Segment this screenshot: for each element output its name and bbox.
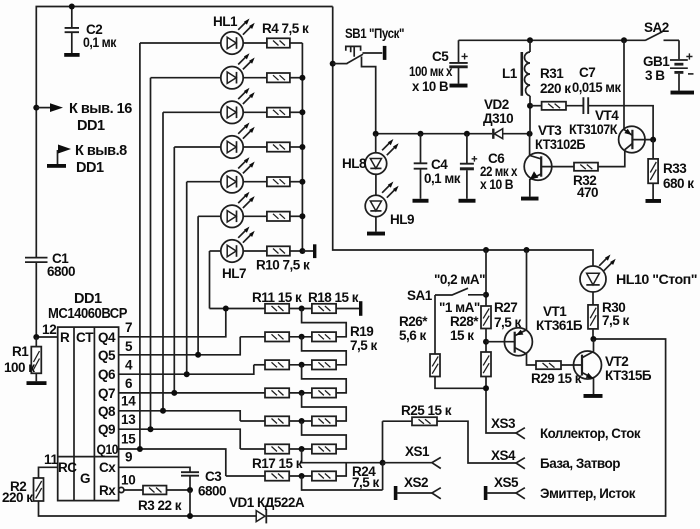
wire R5 to anode bus	[290, 77, 303, 79]
transistor VT2	[574, 339, 652, 394]
pin 9 wire Cx	[119, 467, 190, 471]
ground C5	[450, 84, 468, 88]
node Q6-HL5	[184, 371, 190, 377]
svg-text:CT: CT	[76, 330, 94, 345]
wire R25 left riser to XS1 node	[382, 421, 384, 463]
resistor R27	[481, 300, 522, 330]
wire HL2 riser to Q9	[150, 78, 152, 430]
capacitor C4	[414, 134, 461, 199]
svg-text:10: 10	[121, 473, 135, 488]
node bus-row4	[299, 144, 305, 150]
pin 7 wire Q4	[119, 309, 226, 337]
transistor VT3	[524, 123, 586, 197]
resistor R5	[243, 73, 290, 82]
resistor R14	[265, 388, 289, 397]
wire R28 bottom to XS3	[486, 377, 516, 434]
svg-text:Q6: Q6	[98, 367, 116, 382]
wire grid row3 left	[254, 364, 265, 366]
ground R1	[27, 381, 47, 385]
svg-text:R18 15 к: R18 15 к	[308, 290, 359, 305]
wire VT1 base	[486, 341, 515, 343]
svg-text:R17 15 к: R17 15 к	[252, 456, 303, 471]
resistor R25	[383, 403, 452, 425]
wire R7 to anode bus	[290, 146, 303, 148]
svg-text:VT2: VT2	[605, 354, 628, 369]
svg-text:Q4: Q4	[98, 330, 116, 345]
pin 12 wire	[36, 336, 57, 338]
wire R9 to anode bus	[290, 215, 303, 217]
svg-text:220 к: 220 к	[2, 490, 33, 505]
svg-text:XS5: XS5	[494, 475, 519, 490]
LED HL9	[365, 182, 414, 228]
capacitor C3	[181, 469, 226, 499]
svg-text:Коллектор, Сток: Коллектор, Сток	[540, 426, 641, 441]
socket XS2	[394, 475, 441, 500]
svg-text:R: R	[60, 330, 70, 345]
wire row4 mid	[289, 392, 312, 394]
node row6 center	[299, 446, 305, 452]
node R28-R26-XS3	[483, 385, 489, 391]
wire HL4 riser to Q7	[173, 147, 175, 393]
wire C3 node down to bottom bus	[189, 490, 191, 516]
svg-text:HL8: HL8	[342, 156, 367, 171]
ground VT2	[584, 394, 603, 398]
wire R29 to VT2 base	[561, 364, 582, 366]
resistor R30	[588, 300, 630, 329]
svg-text:5,6 к: 5,6 к	[399, 328, 427, 343]
wire HL8 to HL9	[375, 174, 377, 195]
node VD2-L1 junction	[527, 131, 533, 137]
transistor VT1	[504, 250, 582, 365]
resistor R21	[312, 388, 336, 397]
wire oscillator bus	[376, 133, 492, 135]
node K vyv.8 DD1 tap with ground	[47, 143, 127, 176]
svg-text:13: 13	[121, 412, 136, 427]
node L1 top	[527, 37, 533, 43]
op IC DD1 MC14060BCP body	[48, 291, 128, 501]
svg-text:470: 470	[577, 185, 598, 200]
svg-text:220 к: 220 к	[540, 81, 571, 96]
node bus-VT1 emitter	[524, 247, 530, 253]
LED HL1	[213, 14, 255, 54]
svg-text:DD1: DD1	[76, 160, 104, 176]
capacitor C1	[25, 251, 75, 279]
svg-text:SB1 "Пуск": SB1 "Пуск"	[345, 26, 404, 41]
svg-text:4: 4	[125, 358, 133, 373]
svg-text:R11 15 к: R11 15 к	[252, 290, 302, 305]
svg-text:15 к: 15 к	[450, 328, 474, 343]
wire HL9 to ground	[375, 217, 377, 232]
node Q7-HL4	[171, 390, 177, 396]
svg-text:XS3: XS3	[491, 416, 516, 431]
wire staircase row5-row6	[302, 421, 347, 449]
common-rail terminal bar at R10	[313, 244, 316, 258]
svg-text:R10 7,5 к: R10 7,5 к	[256, 258, 310, 273]
ground R33	[646, 199, 662, 203]
diode VD2	[483, 97, 513, 139]
ground C6	[459, 199, 476, 203]
LED HL2	[221, 53, 255, 89]
wire HL1 riser to Q10	[139, 43, 141, 449]
pin 14 wire Q8	[119, 411, 241, 421]
resistor R8	[243, 177, 290, 186]
wire grid row6 left	[240, 448, 265, 450]
node Q5-HL6	[195, 352, 201, 358]
wire row7 center down to XS1 link	[302, 476, 383, 490]
wire XS1 node down to Rx line	[382, 463, 384, 490]
node bottom bus junction	[187, 513, 193, 519]
svg-text:0,1 мк: 0,1 мк	[424, 171, 461, 186]
wire row6 mid	[289, 448, 312, 450]
wire R4 to anode bus	[290, 42, 303, 44]
wire bottom common bus	[39, 501, 257, 516]
wire HL5 anode row	[187, 181, 221, 183]
node bus-SA1	[483, 247, 489, 253]
wire HL6 riser to Q5	[197, 216, 199, 354]
svg-text:7,5 к: 7,5 к	[602, 313, 630, 328]
svg-text:C3: C3	[205, 469, 222, 484]
wire HL1 anode row	[140, 42, 221, 44]
node C3-R3 junction	[187, 487, 193, 493]
node HL8 tap	[373, 131, 379, 137]
switch SA1	[407, 250, 489, 354]
pin 4 wire Q6	[119, 365, 254, 374]
svg-text:100 мк х: 100 мк х	[409, 64, 453, 79]
node row1 center	[299, 306, 305, 312]
svg-text:9: 9	[125, 450, 132, 465]
svg-text:МС14060ВСР: МС14060ВСР	[48, 306, 128, 322]
wire row7 mid	[289, 475, 312, 477]
wire supply drop right of HL block and measuring bus	[333, 7, 593, 266]
svg-text:Q9: Q9	[98, 422, 115, 437]
node row2 center	[299, 334, 305, 340]
svg-text:11: 11	[44, 452, 58, 467]
svg-text:КТ361Б: КТ361Б	[536, 318, 583, 333]
LED HL4	[221, 123, 255, 159]
svg-text:0,015 мк: 0,015 мк	[572, 80, 621, 95]
wire HL5 riser to Q6	[186, 182, 188, 375]
svg-text:XS4: XS4	[491, 448, 516, 463]
svg-text:База, Затвор: База, Затвор	[540, 456, 620, 471]
wire VT4 emitter column	[623, 40, 625, 129]
svg-text:К выв.8: К выв.8	[75, 143, 127, 159]
resistor R11	[252, 290, 302, 313]
ground VT3	[521, 197, 539, 201]
svg-text:R28*: R28*	[450, 314, 479, 329]
svg-text:VT1: VT1	[543, 304, 567, 319]
wire grid row2 left	[240, 336, 265, 338]
resistor R12	[265, 332, 289, 341]
capacitor C5 electrolytic	[409, 40, 468, 94]
wire staircase row1-row2	[302, 309, 347, 337]
node Q4 riser joins row1	[223, 306, 229, 312]
svg-text:R26*: R26*	[399, 314, 428, 329]
node VT1 base tap	[483, 339, 489, 345]
svg-text:Эмиттер, Исток: Эмиттер, Исток	[540, 486, 636, 501]
wire row3 mid	[289, 364, 312, 366]
svg-text:100 к: 100 к	[4, 360, 35, 375]
svg-text:6: 6	[125, 376, 133, 391]
svg-text:7,5 к: 7,5 к	[350, 338, 378, 353]
common-rail terminal bar at R18	[359, 301, 362, 316]
wire R3 to Rx node and on to grid	[167, 489, 191, 491]
resistor R31	[530, 66, 571, 110]
svg-text:R33: R33	[663, 161, 687, 176]
wire HL3 riser to Q8	[162, 112, 164, 411]
node Q10-HL1	[137, 446, 143, 452]
LED HL8	[342, 134, 399, 175]
resistor R24	[312, 464, 380, 490]
wire left rail lower segment to pin 12	[35, 263, 37, 338]
svg-text:Q5: Q5	[98, 348, 116, 363]
button SB1 Pusk	[333, 26, 404, 134]
wire row1 mid	[289, 308, 312, 310]
wire HL6 anode row	[198, 215, 221, 217]
svg-text:L1: L1	[502, 66, 518, 81]
svg-text:"0,2 мА": "0,2 мА"	[434, 272, 485, 287]
wire R8 to anode bus	[290, 181, 303, 183]
svg-text:х 10 В: х 10 В	[412, 79, 449, 94]
svg-text:XS1: XS1	[405, 444, 430, 459]
wire HL2 anode row	[151, 77, 221, 79]
node row4 center	[299, 390, 305, 396]
node bus-row5	[299, 179, 305, 185]
resistor R13	[265, 360, 289, 369]
svg-text:7: 7	[125, 320, 132, 335]
wire row6 center to XS1 line	[302, 449, 383, 463]
svg-text:R27: R27	[494, 300, 517, 315]
node pin12 junction	[33, 334, 39, 340]
LED HL3	[221, 88, 255, 124]
svg-text:С7: С7	[579, 65, 595, 80]
wire grid row5 left	[240, 420, 265, 422]
wire R10 to anode bus	[290, 250, 303, 252]
resistor R10	[243, 246, 310, 272]
wire Rx to R3	[124, 489, 143, 491]
svg-text:XS2: XS2	[404, 475, 428, 490]
svg-text:Rx: Rx	[99, 483, 116, 498]
svg-text:C4: C4	[431, 157, 448, 172]
wire row2 mid	[289, 336, 312, 338]
LED HL7	[221, 227, 255, 282]
socket XS4	[491, 448, 620, 471]
socket XS3	[491, 416, 641, 441]
svg-text:DD1: DD1	[77, 118, 105, 134]
wire C7 to VT4 base node	[589, 106, 653, 140]
resistor R26	[399, 314, 440, 377]
capacitor C7	[566, 65, 621, 114]
wire HL4 anode row	[174, 146, 221, 148]
node VT4 base R33	[650, 137, 656, 143]
resistor R4	[243, 21, 309, 48]
resistor R15	[265, 416, 289, 425]
wire oscillator bus right of VD2	[503, 133, 530, 135]
wire HL10 to R30	[592, 292, 594, 305]
svg-text:0,1 мк: 0,1 мк	[83, 35, 117, 50]
svg-text:7,5 к: 7,5 к	[352, 475, 380, 490]
switch SA2	[644, 20, 679, 41]
wire HL3 anode row	[163, 111, 221, 113]
wire staircase row3-row4	[302, 365, 347, 393]
svg-text:R3 22 к: R3 22 к	[138, 498, 182, 513]
svg-text:VD2: VD2	[484, 97, 509, 112]
svg-text:HL9: HL9	[390, 212, 414, 227]
node bus-row6	[299, 213, 305, 219]
svg-text:х 10 В: х 10 В	[480, 177, 514, 192]
svg-text:R1: R1	[12, 344, 29, 359]
node L1-R31 junction	[527, 103, 533, 109]
svg-text:КТ3107К: КТ3107К	[569, 122, 618, 137]
battery GB1	[643, 40, 694, 90]
svg-text:GB1: GB1	[643, 54, 670, 69]
wire R24 right end riser to XS1 line	[336, 463, 346, 476]
resistor R16	[265, 444, 289, 453]
svg-text:R4 7,5 к: R4 7,5 к	[262, 21, 309, 36]
pin 5 wire Q5	[119, 337, 241, 355]
resistor R3	[138, 486, 182, 513]
svg-text:R19: R19	[350, 324, 373, 339]
resistor R18	[308, 290, 359, 313]
node K vyv.16 DD1 tap	[33, 101, 132, 134]
node Q8-HL3	[160, 408, 166, 414]
svg-text:3 В: 3 В	[645, 68, 665, 83]
svg-text:К выв. 16: К выв. 16	[69, 101, 132, 117]
ground GB1	[671, 91, 695, 95]
wire battery bus	[459, 39, 646, 41]
resistor R28	[450, 314, 491, 377]
node row3 center	[299, 362, 305, 368]
LED HL10 Stop	[580, 255, 697, 293]
capacitor C6 electrolytic	[460, 134, 518, 199]
svg-text:6800: 6800	[47, 264, 75, 279]
resistor R1	[4, 337, 41, 381]
wire R26 bottom link	[435, 377, 486, 389]
wire staircase row2-row3	[302, 337, 347, 365]
resistor R23	[312, 444, 336, 453]
svg-text:SA1: SA1	[407, 288, 433, 303]
svg-text:VT4: VT4	[595, 108, 619, 123]
svg-text:SA2: SA2	[644, 20, 669, 35]
node bus-row2	[299, 75, 305, 81]
wire row5 mid	[289, 420, 312, 422]
socket XS1	[383, 444, 441, 469]
wire VT3 base to R32	[541, 166, 574, 168]
resistor R29	[531, 361, 582, 386]
resistor R9	[243, 212, 290, 221]
node bus-row3	[299, 109, 305, 115]
wire HL7 riser to grid row1	[209, 251, 211, 309]
wire staircase row4-row5	[302, 393, 347, 421]
svg-text:14: 14	[121, 394, 136, 409]
svg-text:R29 15 к: R29 15 к	[531, 371, 582, 386]
wire R27 to R28	[485, 329, 487, 353]
LED HL5	[221, 157, 255, 193]
LED HL6	[221, 192, 255, 228]
resistor R33	[648, 140, 694, 199]
node row5 center	[299, 418, 305, 424]
svg-text:Д310: Д310	[483, 111, 513, 126]
svg-text:12: 12	[42, 322, 56, 337]
socket XS5	[484, 475, 636, 501]
svg-text:Q8: Q8	[98, 404, 116, 419]
wire stub to common-rail bar at R10	[302, 250, 313, 252]
wire HL7 anode row	[210, 250, 221, 252]
resistor R17	[252, 456, 303, 481]
svg-text:С5: С5	[432, 49, 449, 64]
ground HL9	[367, 232, 385, 236]
svg-text:HL10 "Стоп": HL10 "Стоп"	[616, 272, 697, 287]
svg-text:VD1 КД522А: VD1 КД522А	[229, 495, 305, 510]
pin 13 wire Q9	[119, 429, 241, 449]
diode VD1	[229, 495, 305, 523]
node battery bus to VT4 emitter	[621, 37, 627, 43]
wire R30 to VT2 collector node	[592, 329, 594, 339]
svg-text:"1 мА": "1 мА"	[439, 300, 480, 315]
svg-text:КТ315Б: КТ315Б	[605, 368, 652, 383]
wire grid row1 left	[210, 308, 266, 310]
node junction C2 on top rail	[69, 4, 75, 10]
inductor L1	[502, 40, 530, 133]
svg-text:VT3: VT3	[538, 123, 562, 138]
svg-text:RC: RC	[58, 460, 77, 475]
resistor R19	[312, 324, 378, 353]
capacitor C2	[64, 7, 116, 57]
svg-text:6800: 6800	[198, 484, 226, 499]
node C4 tap	[418, 131, 424, 137]
resistor R6	[243, 108, 290, 117]
node bus-row7	[299, 248, 305, 254]
node R30-VT2	[590, 336, 596, 342]
svg-text:HL7: HL7	[222, 266, 246, 281]
svg-text:HL1: HL1	[213, 14, 238, 29]
wire R18 to terminal bar	[336, 308, 359, 310]
resistor R7	[243, 142, 290, 151]
svg-text:R25 15 к: R25 15 к	[401, 403, 452, 418]
node C6 tap	[464, 131, 470, 137]
svg-text:15: 15	[121, 432, 136, 447]
wire grid row7 left	[226, 475, 265, 477]
svg-text:680 к: 680 к	[663, 176, 694, 191]
wire LED anode bus vertical	[301, 43, 303, 251]
pin 10 inversion bubble Rx	[119, 487, 124, 492]
resistor R32	[573, 163, 598, 200]
node Q9-HL2	[148, 426, 154, 432]
ground C4	[413, 199, 429, 203]
svg-text:R31: R31	[540, 66, 564, 81]
wire top supply rail	[36, 7, 332, 258]
wire R6 to anode bus	[290, 111, 303, 113]
resistor R2	[2, 478, 44, 505]
wire R32 to VT4 collector	[598, 150, 625, 167]
node row7 center	[299, 473, 305, 479]
pin 15 wire Q10	[119, 449, 226, 476]
svg-text:5: 5	[125, 339, 133, 354]
svg-text:Q7: Q7	[98, 386, 115, 401]
resistor R22	[312, 416, 336, 425]
wire R25 right to XS4	[437, 421, 516, 463]
wire bottom bus right of VD1 to right riser	[267, 339, 665, 516]
node XS1	[380, 460, 386, 466]
resistor R20	[312, 360, 336, 369]
svg-text:G: G	[80, 471, 90, 486]
svg-text:Cx: Cx	[99, 460, 116, 475]
svg-text:DD1: DD1	[74, 291, 102, 307]
svg-text:Q10: Q10	[97, 442, 119, 457]
pin 6 wire Q7	[119, 392, 266, 394]
pin 11 wire RC	[39, 467, 58, 478]
svg-text:КТ3102Б: КТ3102Б	[535, 137, 586, 152]
node SB1 tap	[330, 61, 336, 67]
